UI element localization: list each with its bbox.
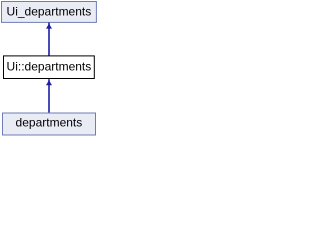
node Ui::departments (middle box) <box>4 56 95 79</box>
arrow shaft (wire) <box>48 23 50 56</box>
svg-text:departments: departments <box>16 116 83 130</box>
arrowhead <box>46 24 52 29</box>
inheritance arrow: departments to Ui::departments <box>46 79 52 113</box>
arrow shaft (wire) <box>48 79 50 113</box>
arrowhead <box>46 80 52 85</box>
inheritance arrow: Ui::departments to Ui_departments <box>46 23 52 56</box>
background <box>0 0 98 136</box>
svg-text:Ui_departments: Ui_departments <box>7 5 92 19</box>
svg-text:Ui::departments: Ui::departments <box>7 60 92 74</box>
node departments (bottom box) <box>3 113 96 135</box>
node Ui_departments (top box) <box>2 2 97 23</box>
